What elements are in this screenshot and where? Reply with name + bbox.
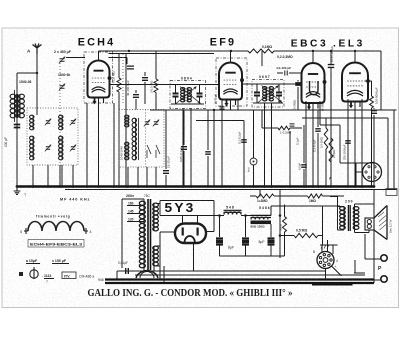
transformer T1 sec fil [153, 246, 159, 266]
label 5Y3 [165, 201, 196, 215]
wire gang down [59, 165, 61, 187]
wire bus branch [261, 51, 263, 66]
AVC line [65, 189, 397, 191]
coil L1c [59, 115, 63, 130]
wire 5Y3 left [156, 232, 175, 246]
label 548 [226, 206, 234, 210]
wire top bus [99, 50, 382, 52]
label 2x450uF [54, 50, 72, 54]
capacitor C13 [126, 268, 129, 274]
band switch box L1 [27, 108, 78, 165]
wire mid v3 [339, 125, 341, 163]
socket J1 [363, 163, 382, 182]
capacitor C3b [142, 72, 148, 104]
label 1540 6k [58, 73, 70, 77]
wire primary top [122, 199, 144, 201]
tube box ECH4 [84, 52, 113, 103]
switch box2 b [156, 145, 160, 158]
label 548k [259, 206, 270, 210]
IF1 arrows [176, 87, 201, 104]
IF1 coil a [181, 88, 185, 103]
tube U4 EL3 [342, 63, 370, 109]
wire mid h3 [302, 117, 388, 119]
label 1540-36 [19, 80, 32, 84]
capacitor C3 [133, 90, 139, 110]
wire heater left [116, 271, 118, 280]
label R11 [279, 223, 283, 231]
wire right v1 [387, 118, 389, 190]
tap 145 [127, 210, 144, 214]
wire mid v208 [205, 110, 211, 187]
capacitor C4 15-25 [163, 110, 169, 187]
wire anode stub [109, 58, 128, 65]
label a15uF [26, 259, 40, 264]
wire r9 row [262, 110, 302, 187]
node top bus 3 [354, 50, 356, 52]
tube label EL3 [333, 39, 365, 50]
wire 5Y3 right [206, 216, 214, 232]
wire EF9 drops [222, 99, 238, 187]
jack P1 [365, 234, 387, 261]
capacitor C6 [220, 107, 225, 109]
label R5 [332, 149, 336, 158]
wire grid top [66, 57, 85, 59]
label C5 [179, 147, 183, 162]
socket J2 [313, 250, 338, 269]
capacitor C1 [14, 125, 21, 128]
trimmer box1 d [70, 145, 76, 152]
coil L1d [59, 136, 63, 160]
gang dash line 2 [145, 110, 147, 168]
tube box EF9 [216, 58, 247, 106]
capacitor C19 [293, 80, 301, 110]
wire box1 drops [33, 165, 73, 187]
capacitor C8 [277, 71, 302, 76]
wire 5Y3 cath [192, 243, 194, 271]
label R1 [112, 71, 116, 83]
capacitor C17 [301, 125, 307, 187]
trimmer box1 b [45, 145, 51, 152]
wire fil line1 [117, 270, 326, 272]
wire r row [250, 195, 344, 197]
wire T3 prim [338, 197, 345, 231]
label box right [386, 189, 397, 196]
wire cap gnd [220, 255, 285, 257]
coil L2c [132, 118, 138, 160]
IF2 box [252, 80, 284, 108]
trimmer CV1 [59, 57, 65, 64]
label R4 02-03 [277, 55, 293, 59]
capacitor C11 [315, 110, 321, 187]
heater line 2 [105, 282, 374, 284]
filament winding [20, 222, 92, 235]
oscillator box L2 [119, 110, 164, 168]
label R10 [320, 137, 324, 148]
wire mid h5 [340, 162, 374, 164]
coil L2b [125, 142, 129, 160]
wire antenna down [36, 54, 38, 110]
label C7 [238, 131, 242, 144]
ground symbol main [14, 188, 27, 197]
wire socket drop [326, 266, 342, 280]
label C17 [298, 163, 302, 170]
ground hatch T1 [136, 266, 158, 278]
label 001uF [118, 261, 128, 265]
transformer T1 primary [139, 201, 145, 268]
trimmer box2 b [153, 120, 159, 127]
capacitor C9 [328, 51, 335, 187]
IF2 label 0697 [259, 75, 270, 79]
transformer T1 sec HT [153, 203, 159, 231]
coil L1a [30, 115, 34, 130]
wire T3 top [330, 196, 338, 198]
label C11 [313, 139, 317, 152]
trimmer box1 c [70, 119, 76, 126]
wire J1 left [356, 163, 363, 187]
wire ECH4 bottom [87, 98, 114, 187]
label C16 [296, 137, 300, 145]
wire ECH4 top cap [98, 51, 100, 61]
label tube list [28, 240, 84, 248]
tap 120 [127, 218, 144, 222]
tube U5 5Y3 [175, 224, 206, 244]
resistor R8 05MA [294, 229, 318, 238]
capacitor C15 8uF [242, 214, 249, 256]
capacitor C10 [371, 108, 377, 187]
wire primary left [121, 199, 123, 268]
trimmer box2 a [144, 120, 150, 127]
label C6 [214, 94, 218, 104]
node top bus 2 [230, 50, 232, 52]
capacitor C5 005-01 [181, 110, 187, 187]
IF2 coil a [263, 87, 267, 102]
wire IF2 inner [253, 84, 283, 103]
IF2 coil b [269, 87, 273, 102]
wire EL3 top [354, 51, 356, 63]
wire screen [125, 53, 127, 186]
wire B+ a [214, 215, 224, 217]
IF1 box [170, 81, 206, 109]
wire EF9 top [230, 51, 232, 63]
transformer T3 [340, 205, 359, 231]
resistor R11 300 [283, 205, 287, 257]
wire box2 drops [128, 167, 156, 187]
IF2 arrows [258, 86, 282, 103]
node top bus 4 [312, 50, 314, 52]
label 260v [126, 194, 151, 198]
gang dash line 3 [122, 54, 124, 104]
wire box1 top [36, 110, 38, 115]
wire EL3 right [380, 51, 382, 110]
tube label ECH4 [78, 37, 116, 49]
resistor R5 25MA [329, 138, 333, 187]
wire sec fil taps [156, 246, 164, 283]
resistor R1 005MA [117, 53, 121, 186]
wire B+ b [241, 215, 251, 217]
wire IF1 drops [183, 109, 191, 187]
logo row [19, 267, 104, 284]
resistor R12 [365, 81, 374, 187]
tube U2 EF9 [219, 63, 244, 107]
label C4 [167, 156, 171, 168]
wire IF2 drops [265, 103, 272, 187]
trimmer box1 a [45, 119, 51, 126]
5Y3 wire box [160, 201, 214, 216]
transformer T1 core [148, 199, 151, 270]
label 42M [321, 101, 325, 111]
label R3 [262, 45, 273, 49]
tuning gang dash line [59, 63, 61, 165]
label x155uF [52, 259, 69, 264]
IF1 cap b [197, 85, 203, 104]
choke CH1 [224, 210, 242, 214]
capacitor C18 8uF [259, 224, 275, 256]
wire EBC3 drops [306, 101, 320, 187]
wire ECH4 anode to IF1 [110, 84, 176, 86]
wire EBC3 top [312, 51, 314, 63]
wire right end [373, 190, 375, 284]
trimmer CV2 [59, 84, 65, 91]
tap 160 [127, 202, 144, 206]
wire v 260 [259, 190, 261, 197]
label 200 [345, 200, 353, 204]
wire EF9 to IF2 [242, 83, 257, 85]
label C8 40-100 [276, 66, 291, 70]
resistor R3 01MA [248, 49, 274, 53]
bus junction dots [16, 185, 376, 188]
wire IF2 out [279, 83, 302, 85]
socket top hatch [321, 245, 329, 249]
caption [88, 288, 293, 299]
tube U1 ECH4 [88, 61, 112, 105]
node B+ [279, 214, 282, 217]
wire 5Y3 anodes [183, 216, 198, 224]
label C2 [126, 80, 130, 96]
node A [329, 177, 332, 181]
wire EL3 drops [348, 99, 362, 187]
resistor R9 102 [278, 126, 292, 134]
IF1 label 0894 [181, 77, 192, 81]
label R2 [150, 80, 154, 93]
IF2 cap a [254, 84, 260, 103]
label MF 440 [60, 198, 90, 202]
wire speaker gnd [354, 260, 355, 273]
heater line 1 [105, 278, 374, 280]
wire box to choke [214, 215, 224, 217]
potentiometer P1 [247, 110, 258, 187]
IF1 cap a [173, 85, 179, 104]
transformer T2 [251, 215, 272, 228]
capacitor C12 [345, 110, 351, 187]
node top bus 1 [128, 50, 130, 52]
label 1040-1640 [120, 146, 124, 160]
capacitor C2 40-160 [127, 66, 134, 69]
wire mid h2 [246, 109, 397, 111]
EBC3 diode [310, 81, 319, 95]
wire antenna tap [17, 72, 37, 74]
IF1 coil b [187, 88, 191, 103]
switch box2 a [147, 145, 151, 158]
jack P2 [354, 273, 387, 282]
coil L1b [30, 136, 34, 160]
label P [378, 266, 382, 272]
speaker LS1 [365, 206, 393, 240]
wire bus2 [109, 52, 215, 54]
tube label EBC3 [291, 39, 329, 50]
wire fil line2 [135, 274, 365, 276]
node antenna tap [36, 72, 38, 74]
IF2 cap b [276, 84, 282, 103]
label C12 [343, 144, 347, 160]
resistor R7 1MA [308, 194, 323, 203]
wire socket up [320, 240, 338, 254]
tube label EF9 [210, 37, 236, 49]
wire mid h4 [320, 124, 340, 126]
capacitor C14 8uF [216, 214, 234, 256]
label filamenti [36, 215, 70, 219]
capacitor C16 [290, 124, 295, 126]
wire left column [16, 73, 18, 187]
wire IF1 inner [171, 85, 204, 104]
label 100uF [4, 137, 8, 147]
wire T3 sec [355, 204, 375, 233]
ground bus [17, 185, 375, 188]
antenna coil T0 [10, 90, 24, 122]
resistor R10 [324, 118, 328, 187]
node top bus 5 [330, 50, 332, 52]
heater stub [312, 284, 353, 286]
resistor R6 1-2MA [256, 194, 274, 203]
wire right v2 [393, 110, 395, 190]
resistor R2 305MA [154, 51, 158, 110]
capacitor C7 [241, 140, 247, 142]
wire IF1 out [200, 84, 219, 86]
wire avc feed [196, 121, 244, 187]
wire mid h1 [150, 109, 246, 111]
coil L2a [125, 115, 129, 127]
wire B+ c [271, 206, 340, 245]
wire sec to 5Y3 [156, 203, 160, 205]
antenna A [27, 44, 42, 55]
wire r8 [279, 234, 323, 237]
wire mid v214 [213, 109, 215, 187]
tube U3 EBC3 [302, 63, 327, 110]
label C9 3045 [330, 46, 334, 63]
wire v280 [279, 190, 281, 259]
label C10 100-500 [375, 87, 379, 104]
